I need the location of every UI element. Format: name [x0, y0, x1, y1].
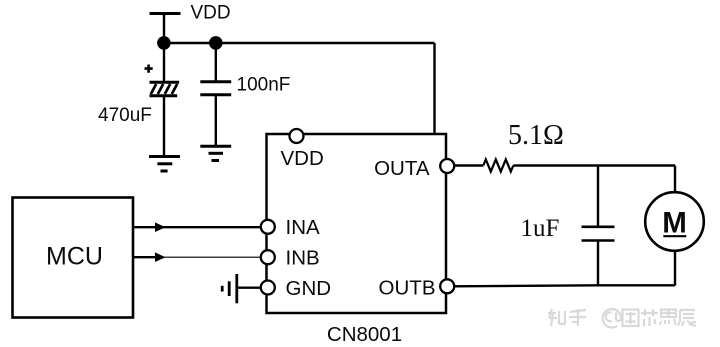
pin OUTA of U1 — [440, 159, 454, 173]
zhi — [548, 309, 565, 326]
watermark zhihu @guoxinsichen — [548, 309, 696, 328]
arrow on INA wire — [155, 222, 166, 232]
xin — [641, 309, 658, 326]
arrow on INB wire — [155, 252, 166, 262]
motor M1 — [645, 192, 704, 251]
capacitor C2 100nF — [200, 82, 231, 95]
hu — [569, 309, 586, 326]
svg-text:OUTA: OUTA — [374, 157, 430, 180]
wire ground to GND pin — [237, 287, 261, 289]
chen — [678, 310, 696, 326]
wire MCU to INB (left) — [133, 256, 156, 258]
pin OUTB of U1 — [440, 279, 454, 293]
resistor R1 5.1ohm — [483, 159, 513, 171]
junction node at C1 — [157, 36, 171, 50]
@ — [603, 309, 621, 327]
si — [660, 310, 676, 326]
MCU block — [13, 198, 134, 318]
IC U1 CN8001 body — [267, 134, 447, 313]
svg-text:INB: INB — [286, 247, 320, 270]
svg-text:M: M — [662, 207, 687, 240]
junction node at C2 — [209, 36, 223, 50]
svg-text:CN8001: CN8001 — [327, 323, 402, 346]
svg-text:5.1Ω: 5.1Ω — [508, 120, 564, 151]
wire VDD rail (horizontal) — [164, 42, 435, 44]
capacitor C3 1uF — [582, 227, 615, 241]
wire C1 top lead — [163, 43, 165, 82]
svg-text:1uF: 1uF — [521, 215, 560, 242]
guo — [623, 310, 639, 327]
wire C2 top lead — [215, 43, 217, 82]
wire VDD rail drop to IC — [433, 43, 435, 134]
wire motor top lead — [674, 166, 676, 194]
wire MCU to INA — [133, 226, 261, 228]
svg-text:100nF: 100nF — [237, 75, 291, 96]
svg-text:INA: INA — [286, 216, 321, 239]
wire OUTA to resistor — [454, 164, 484, 166]
ground at GND pin — [222, 274, 237, 303]
svg-text:MCU: MCU — [46, 243, 103, 271]
svg-text:GND: GND — [286, 277, 332, 300]
capacitor C1 470uF polarized — [145, 65, 180, 96]
svg-text:470uF: 470uF — [98, 105, 152, 126]
pin INA of U1 — [261, 220, 275, 234]
pin VDD of U1 — [290, 129, 304, 143]
ground under C2 — [200, 146, 231, 160]
ground under C1 — [149, 157, 180, 172]
pin INB of U1 — [261, 250, 275, 264]
wire MCU to INB (right thin) — [156, 256, 261, 258]
wire motor bottom lead — [674, 251, 676, 286]
power symbol VDD — [150, 14, 181, 44]
svg-text:OUTB: OUTB — [379, 277, 436, 300]
svg-text:VDD: VDD — [281, 147, 324, 170]
wire resistor to motor node — [513, 164, 675, 166]
pin GND of U1 — [261, 281, 275, 295]
wire C1 bottom lead — [163, 96, 165, 157]
wire C3 bottom lead — [597, 241, 599, 286]
svg-text:VDD: VDD — [191, 3, 231, 24]
wire C2 bottom lead — [215, 95, 217, 146]
wire OUTB bottom rail — [454, 285, 676, 286]
wire C3 top lead — [597, 166, 599, 227]
